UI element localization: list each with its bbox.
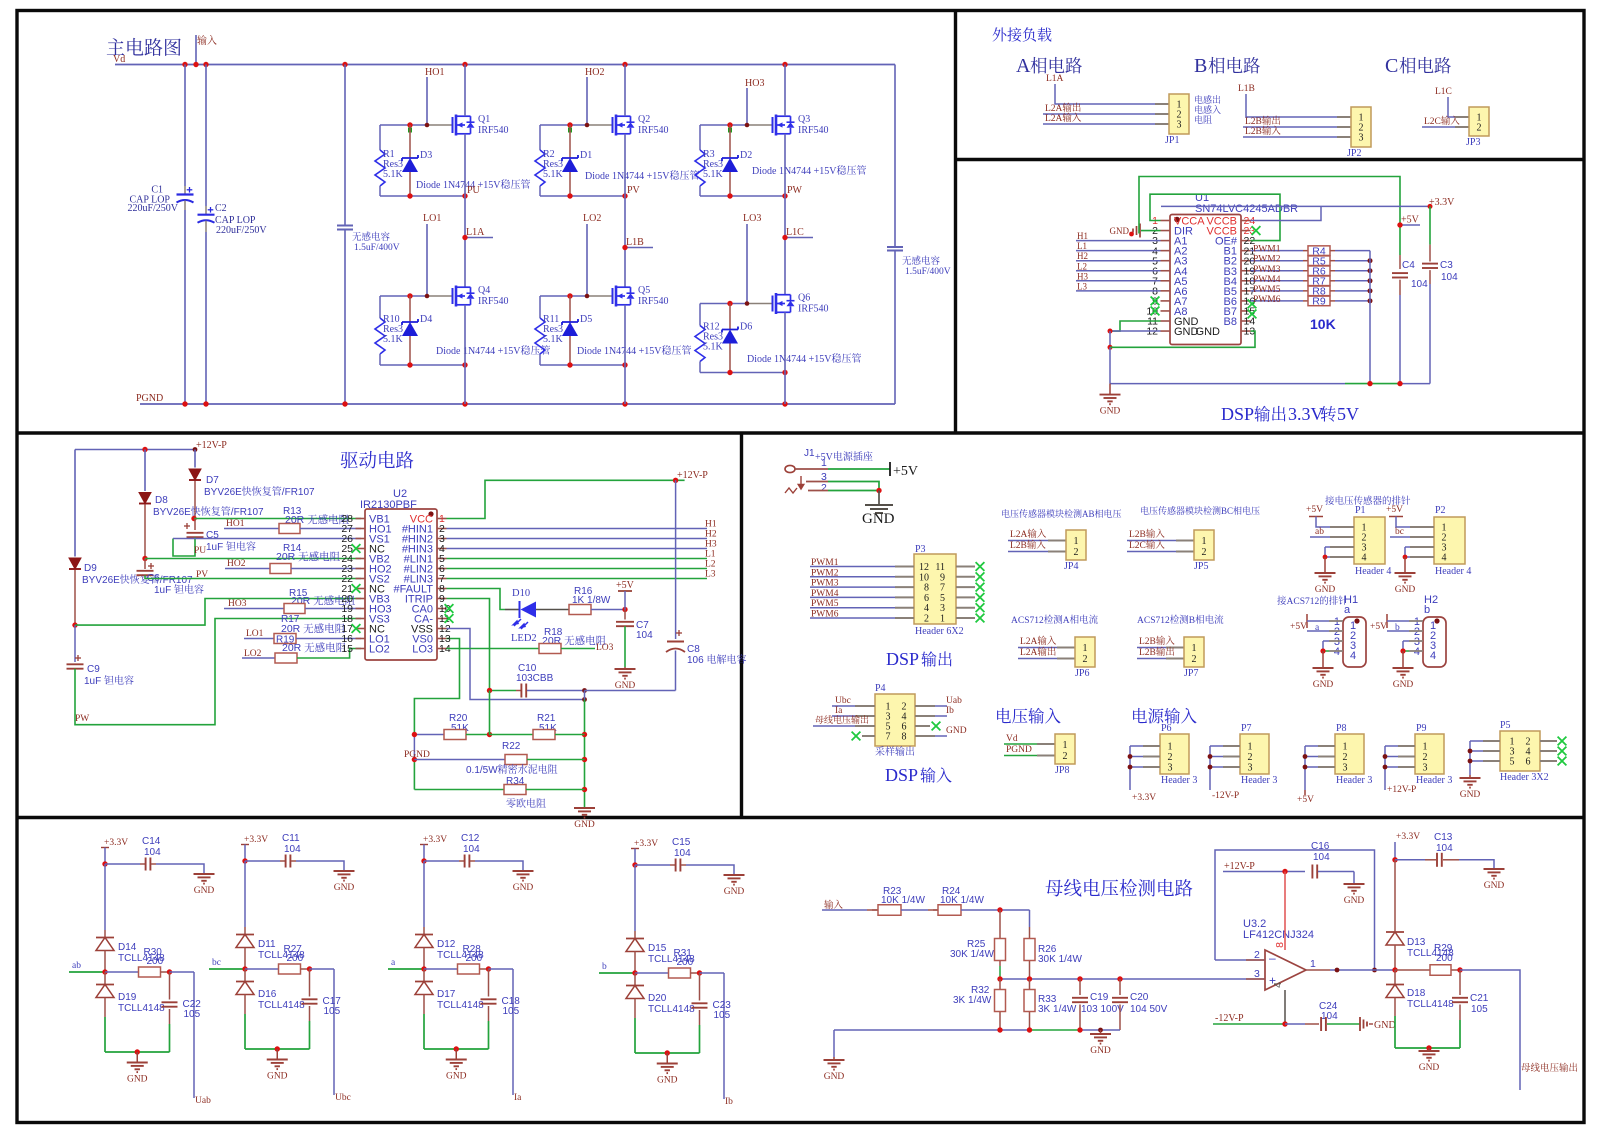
svg-text:200: 200 [1436, 953, 1453, 964]
junction bot R32 [997, 1027, 1002, 1032]
wire P1 rows34 gnd [1325, 546, 1330, 548]
svg-text:+5V: +5V [1306, 505, 1323, 515]
svg-text:3: 3 [1248, 763, 1253, 774]
resistor R3 (Res3 5.1K zigzag) [699, 125, 701, 150]
svg-text:1.5uF/400V: 1.5uF/400V [354, 243, 400, 253]
svg-text:PWM5: PWM5 [811, 599, 839, 609]
svg-text:L2C输入: L2C输入 [1129, 537, 1165, 551]
diode D20 TCLL4148 [634, 973, 636, 985]
wire drain Q1 [464, 65, 466, 117]
green wire LO3 row [447, 648, 540, 650]
svg-text:LED2: LED2 [511, 633, 537, 644]
wire U1 B6 to R9 [1251, 300, 1304, 302]
transistor Q2 IRF540 [612, 117, 614, 133]
P5 right stub row3 [1540, 760, 1557, 762]
wire P6 row2 [1130, 756, 1143, 758]
svg-text:GND: GND [1395, 585, 1416, 595]
diode D16 TCLL4148 [244, 969, 246, 981]
svg-text:D14: D14 [118, 942, 137, 953]
green wire DIR to GND [1141, 230, 1161, 232]
svg-text:LO3: LO3 [596, 643, 614, 653]
junction R20-R21 [487, 732, 492, 737]
wire P9 row3 [1385, 766, 1398, 768]
diode D9 BYV26E [74, 450, 76, 557]
wire U1 B4 to R7 [1251, 280, 1304, 282]
svg-text:105: 105 [503, 1006, 520, 1017]
svg-text:7: 7 [886, 732, 891, 743]
wire output drop Ia [512, 969, 514, 1095]
junction bottom D2 [727, 193, 732, 198]
svg-text:L3: L3 [1077, 281, 1087, 291]
svg-text:PWM2: PWM2 [1253, 255, 1281, 265]
junction Vd x=206 [203, 62, 208, 67]
svg-text:L1: L1 [1077, 241, 1087, 251]
svg-text:+12V-P: +12V-P [1387, 785, 1416, 795]
svg-text:外接负载: 外接负载 [992, 24, 1052, 45]
svg-text:电阻: 电阻 [1194, 113, 1212, 126]
P3 right stub pin [956, 576, 975, 578]
junction C11 top [242, 858, 247, 863]
resistor R5 [1303, 260, 1308, 262]
junction PGND x=785 [782, 401, 787, 406]
svg-text:+12V-P: +12V-P [677, 470, 708, 481]
wire U1 L1 input [1076, 250, 1161, 252]
svg-text:ab: ab [72, 961, 81, 971]
P3 right stub pin [956, 586, 975, 588]
junction C15 top [632, 862, 637, 867]
svg-text:GND: GND [657, 1076, 678, 1086]
svg-text:4: 4 [1272, 982, 1284, 988]
wire R24 out [961, 909, 1030, 911]
svg-text:无感电容: 无感电容 [902, 253, 941, 267]
svg-text:2: 2 [1423, 752, 1428, 763]
U2 pin 9 stub [437, 598, 447, 600]
svg-text:LO1: LO1 [423, 213, 441, 224]
svg-text:DSP: DSP [886, 649, 919, 669]
capacitor C17 105 [309, 969, 311, 997]
svg-text:P9: P9 [1416, 723, 1427, 734]
junction C12 top [421, 858, 426, 863]
wire +3.3V down [104, 864, 106, 930]
panel divider horizontal bottom [17, 816, 1584, 819]
svg-text:2: 2 [1343, 752, 1348, 763]
svg-text:15: 15 [341, 643, 353, 655]
green wire VS2 row [145, 577, 361, 578]
svg-text:200: 200 [677, 957, 694, 968]
svg-text:C4: C4 [1402, 260, 1415, 271]
svg-text:C11: C11 [282, 833, 300, 844]
svg-text:JP1: JP1 [1165, 135, 1179, 146]
junction bus out gnd [1426, 1045, 1431, 1050]
svg-text:GND: GND [946, 726, 967, 736]
H2 pin1 marker [1434, 618, 1439, 623]
wire drain Q3 [784, 65, 786, 117]
svg-text:4: 4 [1430, 650, 1436, 662]
svg-text:输出: 输出 [1254, 401, 1287, 425]
svg-text:105: 105 [1471, 1004, 1488, 1015]
svg-text:GND: GND [824, 1072, 845, 1082]
svg-text:ACS712检测A相电流: ACS712检测A相电流 [1011, 612, 1099, 626]
junction bottom D1 [567, 193, 572, 198]
svg-text:GND: GND [513, 883, 534, 893]
svg-text:TCLL4148: TCLL4148 [118, 1003, 165, 1014]
wire #HIN1 [447, 528, 708, 530]
capacitor C19 103 100V [1079, 979, 1081, 995]
junction P8 r3 [1303, 765, 1308, 770]
junction P6 r2 [1128, 754, 1133, 759]
svg-text:1: 1 [1192, 643, 1197, 654]
wire L1B stub [625, 247, 653, 249]
IC U1 SN74LVC4245ADBR box [1170, 215, 1241, 345]
diode D18 TCLL4148 [1394, 970, 1396, 984]
svg-text:L1A: L1A [1046, 74, 1064, 84]
junction Vd x=785 [782, 62, 787, 67]
svg-text:C15: C15 [672, 837, 691, 848]
wire LO1 drop [426, 224, 428, 296]
wire L2A输出 [1043, 113, 1155, 115]
junction clamp in [102, 969, 107, 974]
svg-text:3: 3 [1177, 120, 1182, 131]
svg-text:104: 104 [144, 847, 161, 858]
svg-text:L2: L2 [705, 560, 716, 570]
no-connect X P3 row 5 [976, 603, 985, 612]
svg-text:D12: D12 [437, 939, 456, 950]
wire P5 left row3 [1470, 760, 1483, 762]
U1 pin 21 stub [1241, 250, 1251, 252]
svg-text:IRF540: IRF540 [638, 296, 669, 307]
U1 pin 13 stub [1241, 330, 1251, 332]
diode D12 TCLL4148 [423, 927, 425, 934]
svg-text:输入: 输入 [920, 763, 952, 786]
svg-text:GND: GND [334, 883, 355, 893]
svg-text:Q2: Q2 [638, 114, 650, 125]
svg-text:PGND: PGND [1006, 741, 1032, 755]
wire L2B输出 [1243, 126, 1337, 128]
svg-text:2: 2 [1248, 752, 1253, 763]
svg-text:+5V: +5V [1290, 622, 1307, 632]
junction J1 gnd [876, 488, 881, 493]
zener diode D3 [409, 125, 411, 158]
capacitor C2 [205, 65, 207, 207]
svg-text:Header 3X2: Header 3X2 [1500, 772, 1549, 783]
svg-text:母线电压输出: 母线电压输出 [815, 713, 869, 726]
svg-text:Q6: Q6 [798, 293, 810, 304]
P4 right row2 Ib [915, 715, 935, 717]
junction DIR gnd [1129, 232, 1134, 237]
svg-text:PWM2: PWM2 [811, 568, 839, 578]
svg-text:JP8: JP8 [1055, 765, 1069, 776]
H2 pin stub 3 [1409, 640, 1423, 642]
no-connect X pin 23 [1252, 226, 1261, 235]
junction rail [1367, 381, 1372, 386]
svg-text:PWM3: PWM3 [811, 579, 839, 589]
wire HO2 drop [586, 77, 588, 125]
svg-text:PWM4: PWM4 [811, 589, 839, 599]
svg-text:输入: 输入 [824, 897, 844, 911]
U1 pin 2 stub [1161, 230, 1171, 232]
svg-text:Diode 1N4744 +15V稳压管: Diode 1N4744 +15V稳压管 [752, 162, 867, 177]
resistor R11 (Res3 5.1K zigzag) [539, 296, 541, 318]
transistor Q3 IRF540 [772, 117, 774, 133]
svg-text:1uF 钽电容: 1uF 钽电容 [206, 538, 256, 553]
svg-text:1: 1 [1248, 742, 1253, 753]
wire #HIN2 [447, 538, 708, 540]
svg-text:8: 8 [1274, 942, 1286, 948]
svg-text:3: 3 [1168, 763, 1173, 774]
svg-text:104: 104 [1321, 1011, 1338, 1022]
U1 pin 14 stub [1241, 320, 1251, 322]
junction clamp gnd [135, 1049, 140, 1054]
svg-text:A: A [1016, 55, 1031, 77]
junction mid C20 [1117, 976, 1122, 981]
svg-text:HO2: HO2 [585, 67, 604, 78]
svg-text:+3.3V: +3.3V [244, 835, 268, 845]
svg-text:+12V-P: +12V-P [1224, 861, 1255, 872]
U2 pin 2 stub [437, 528, 447, 530]
svg-text:+5V: +5V [616, 580, 635, 591]
svg-text:4: 4 [1362, 553, 1367, 564]
svg-text:相电路: 相电路 [1208, 53, 1261, 78]
svg-text:+12V-P: +12V-P [196, 440, 227, 451]
J1 switch arrow [798, 476, 804, 489]
svg-text:TCLL4148: TCLL4148 [437, 1000, 484, 1011]
svg-text:Q5: Q5 [638, 285, 650, 296]
wire P8 common [1304, 746, 1306, 790]
svg-text:R9: R9 [1312, 296, 1326, 308]
junction PGND x=345 [342, 401, 347, 406]
svg-text:1: 1 [1168, 742, 1173, 753]
U1 pin 11 stub [1161, 320, 1171, 322]
svg-text:电压输入: 电压输入 [995, 703, 1062, 727]
svg-text:4: 4 [1350, 650, 1356, 662]
svg-text:200: 200 [147, 956, 164, 967]
svg-text:GND: GND [1100, 407, 1121, 417]
svg-text:GND: GND [267, 1072, 288, 1082]
U1 pin 20 stub [1241, 260, 1251, 262]
svg-text:D5: D5 [580, 314, 592, 325]
junction clamp gnd [275, 1046, 280, 1051]
wire +3.3V down [244, 861, 246, 927]
svg-text:200: 200 [287, 953, 304, 964]
wire PWM3 to P3 [810, 586, 895, 588]
svg-text:1: 1 [1074, 536, 1079, 547]
svg-text:Ib: Ib [946, 706, 954, 716]
svg-text:220uF/250V: 220uF/250V [216, 225, 267, 236]
junction P5 r2 [1468, 749, 1473, 754]
ground GND (P5) [1469, 775, 1471, 778]
svg-text:L1C: L1C [1435, 87, 1452, 97]
svg-text:PWM4: PWM4 [1253, 275, 1281, 285]
svg-text:20R 无感电阻: 20R 无感电阻 [276, 549, 341, 564]
svg-text:C13: C13 [1434, 832, 1453, 843]
green wire #LIN1 [447, 558, 708, 560]
wire #HIN3 [447, 548, 708, 550]
svg-text:P6: P6 [1161, 723, 1172, 734]
svg-text:LF412CNJ324: LF412CNJ324 [1243, 929, 1314, 941]
junction clamp gnd [665, 1050, 670, 1055]
capacitor C1 [184, 65, 186, 187]
svg-text:Header 4: Header 4 [1355, 566, 1391, 577]
svg-text:P2: P2 [1435, 505, 1446, 516]
U1 pin 9 stub [1161, 300, 1171, 302]
wire P6 common [1129, 746, 1131, 790]
svg-text:GND: GND [1419, 1063, 1440, 1073]
svg-text:BYV26E快恢复管/FR107: BYV26E快恢复管/FR107 [153, 503, 264, 518]
svg-text:30K 1/4W: 30K 1/4W [950, 949, 994, 960]
svg-text:ab: ab [1315, 527, 1324, 537]
wire L1A stub [465, 237, 493, 239]
svg-text:H1: H1 [1077, 231, 1088, 241]
zener diode D1 [569, 125, 571, 158]
junction gnd bus 2 [1108, 345, 1113, 350]
svg-text:C12: C12 [461, 833, 480, 844]
IC U2 IR2130PBF box [365, 509, 437, 660]
wire output to edge [1460, 970, 1520, 1090]
wire U1 H2 input [1076, 260, 1161, 262]
junction bus R22 row [582, 757, 587, 762]
svg-text:B: B [1194, 55, 1207, 77]
svg-text:1: 1 [1310, 958, 1316, 970]
ground GND (C13) [1493, 868, 1495, 869]
green wire VB2 [145, 558, 361, 560]
feedback loop wire [1215, 959, 1225, 961]
svg-text:5.1K: 5.1K [383, 169, 404, 180]
svg-text:1: 1 [940, 614, 945, 625]
svg-text:104: 104 [636, 630, 653, 641]
svg-text:1: 1 [1423, 742, 1428, 753]
svg-text:GND: GND [862, 511, 895, 527]
svg-text:L2B输出: L2B输出 [1139, 644, 1175, 658]
svg-text:无感电容: 无感电容 [352, 229, 391, 243]
junction R6 out [1368, 268, 1373, 273]
svg-text:C16: C16 [1311, 841, 1330, 852]
svg-text:B8: B8 [1224, 316, 1237, 328]
wire output drop Ib [723, 973, 725, 1099]
svg-text:零欧电阻: 零欧电阻 [506, 795, 546, 810]
wire +3.3V net [1251, 206, 1322, 220]
wire +3.3V down [634, 865, 636, 931]
svg-text:R22: R22 [502, 741, 521, 752]
green wire D18 gnd [1394, 1016, 1396, 1048]
svg-text:Ia: Ia [514, 1093, 522, 1103]
svg-text:C21: C21 [1470, 993, 1489, 1004]
U1 pin 5 stub [1161, 260, 1171, 262]
junction gate top Q1 [407, 122, 412, 127]
svg-text:2: 2 [1477, 123, 1482, 134]
svg-text:GND: GND [615, 681, 636, 691]
ground GND (H2) [1402, 651, 1404, 668]
U2 pin 14 stub [437, 648, 447, 650]
wire P8 row2 [1305, 756, 1318, 758]
junction Vd x=625 [622, 62, 627, 67]
capacitor C23 105 [699, 973, 701, 1001]
svg-text:D13: D13 [1407, 937, 1426, 948]
svg-text:Header 3: Header 3 [1416, 775, 1452, 786]
junction C13 tap [1392, 857, 1397, 862]
svg-text:2: 2 [1074, 547, 1079, 558]
svg-text:HO1: HO1 [425, 67, 444, 78]
svg-text:Header 3: Header 3 [1161, 775, 1197, 786]
U1 pin 22 stub [1241, 240, 1251, 242]
svg-text:2: 2 [1063, 751, 1068, 762]
diode D15 TCLL4148 [634, 931, 636, 938]
wire PGND rail [140, 403, 895, 405]
U1 pin 6 stub [1161, 270, 1171, 272]
wire P6 row1 [1130, 745, 1143, 747]
H1 pin1 marker [1354, 618, 1359, 623]
U1 pin 19 stub [1241, 270, 1251, 272]
junction L1A [462, 235, 467, 240]
wire phase to mid [464, 196, 466, 287]
wire P7 row1 [1210, 745, 1223, 747]
wire U1 gnd bus [1110, 321, 1161, 331]
svg-text:P7: P7 [1241, 723, 1252, 734]
P4 right row1 Uab [915, 705, 935, 707]
junction P6 r3 [1128, 765, 1133, 770]
U1 pin 18 stub [1241, 280, 1251, 282]
svg-text:D20: D20 [648, 993, 667, 1004]
junction mid R25 [997, 976, 1002, 981]
wire PWM6 to P3 [810, 617, 895, 619]
P4 right row4 GND [915, 735, 935, 737]
J1 sleeve zigzag [785, 488, 797, 493]
svg-text:输出: 输出 [921, 647, 953, 670]
svg-text:C20: C20 [1130, 992, 1149, 1003]
panel divider horizontal loads [956, 158, 1585, 161]
junction +5V [1397, 222, 1402, 227]
U2 pin 4 stub [437, 548, 447, 550]
junction gate low [567, 293, 572, 298]
wire LO3 drop [746, 224, 748, 304]
svg-text:Vd: Vd [113, 54, 125, 65]
capacitor C6 1uF [144, 559, 146, 570]
junction P5 r3 [1468, 759, 1473, 764]
no-connect X P5 row1 [1558, 737, 1567, 746]
wire L2B输入 [1243, 136, 1337, 138]
zener diode D5 [569, 296, 571, 322]
svg-text:LO3: LO3 [412, 644, 433, 656]
svg-text:JP4: JP4 [1064, 561, 1078, 572]
U2 pin 27 stub [356, 528, 366, 530]
junction -12V [1282, 1021, 1287, 1026]
GND symbol at DIR [1139, 224, 1141, 238]
green wire VB1 [194, 518, 361, 520]
svg-text:2: 2 [1254, 949, 1260, 961]
svg-text:D11: D11 [258, 939, 276, 950]
no-connect X P3 row 1 [976, 562, 985, 571]
wire to left gnd [833, 1030, 835, 1057]
svg-text:H3: H3 [1077, 271, 1088, 281]
svg-text:3: 3 [1423, 763, 1428, 774]
svg-text:SN74LVC4245ADBR: SN74LVC4245ADBR [1195, 203, 1298, 215]
svg-text:IRF540: IRF540 [638, 125, 669, 136]
svg-text:Header 3: Header 3 [1336, 775, 1372, 786]
junction bottoms [727, 370, 732, 375]
wire U1 H3 input [1076, 280, 1161, 282]
U2 pin 8 stub [437, 588, 447, 590]
junction bottoms [407, 362, 412, 367]
svg-text:Diode 1N4744 +15V稳压管: Diode 1N4744 +15V稳压管 [747, 350, 862, 365]
svg-text:L2B输入: L2B输入 [1245, 123, 1281, 137]
wire lower cluster top rail [540, 295, 587, 297]
no-connect X U2 pins 25 21 17 [352, 544, 361, 553]
resistor R6 [1303, 270, 1308, 272]
junction +12V-P [673, 478, 678, 483]
svg-text:H2: H2 [1077, 251, 1088, 261]
diode D11 TCLL4148 [244, 927, 246, 934]
U1 pin 8 stub [1161, 290, 1171, 292]
ground GND (clamp b) [666, 1053, 668, 1064]
